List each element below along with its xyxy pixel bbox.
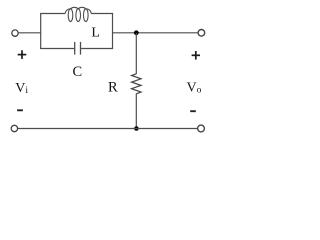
- wire: LC box top edge left segment: [40, 13, 65, 15]
- wire: LC box bottom edge, right of capacitor: [81, 48, 113, 50]
- wire: LC box right edge: [112, 14, 114, 49]
- svg-text:Vo: Vo: [187, 81, 202, 96]
- wire: input terminal to LC box left edge: [19, 32, 41, 34]
- junction node (bottom of resistor branch): [134, 126, 139, 131]
- svg-text:C: C: [73, 64, 83, 80]
- minus sign (input polarity): [17, 109, 23, 111]
- resistor R (zigzag): [132, 74, 141, 94]
- svg-text:L: L: [91, 25, 100, 40]
- svg-text:Vi: Vi: [15, 81, 28, 96]
- inductor L (coil, three loops with bridging arcs): [65, 7, 91, 21]
- junction node (top of resistor branch): [134, 30, 139, 35]
- capacitor C (two vertical plates): [75, 42, 81, 55]
- wire: LC box top edge right segment: [91, 13, 113, 15]
- svg-text:R: R: [108, 80, 118, 96]
- wire: LC box left edge: [40, 14, 42, 49]
- plus sign (output polarity): [192, 51, 200, 60]
- input terminal (top-left open circle): [12, 30, 18, 36]
- minus sign (output polarity): [190, 110, 196, 112]
- wire: LC box bottom edge, left of capacitor: [40, 48, 74, 50]
- wire: junction down to resistor top: [135, 33, 137, 74]
- wire: bottom rail: [18, 128, 198, 130]
- wire: LC box right edge to output terminal: [113, 32, 199, 34]
- output terminal (top-right open circle): [198, 30, 205, 37]
- input return terminal (bottom-left open circle): [11, 125, 17, 131]
- output return terminal (bottom-right open circle): [198, 125, 205, 132]
- plus sign (input polarity): [18, 50, 27, 59]
- wire: resistor bottom to bottom rail: [135, 94, 137, 129]
